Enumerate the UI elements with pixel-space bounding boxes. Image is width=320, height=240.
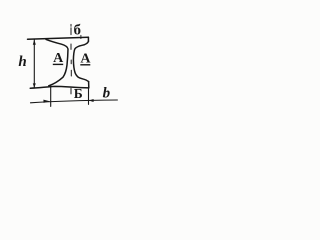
beam bottom edge (with left extension for h): [30, 86, 89, 88]
beam right flange tip edge (top): [87, 37, 89, 41]
arrow h bottom (pointing down): [33, 83, 36, 87]
beam top flange underside right + web right edge + bottom fillet right: [73, 41, 88, 81]
extension tick from б label to top edge: [80, 35, 82, 38]
underline of right А: [80, 64, 90, 65]
beam top edge (with left extension for h): [28, 37, 89, 39]
svg-text:б: б: [73, 23, 81, 39]
underline of left А: [53, 64, 63, 65]
dimension line h (vertical, left): [33, 40, 35, 88]
extension line left (Б, from bottom flange tip): [50, 86, 52, 106]
arrow Б left (outside, pointing right at x=50.7): [43, 100, 49, 103]
svg-text:h: h: [18, 54, 26, 70]
svg-text:А: А: [53, 51, 64, 66]
svg-text:b: b: [103, 86, 111, 102]
svg-text:А: А: [80, 51, 91, 66]
svg-text:Б: Б: [74, 86, 83, 101]
centerline (dash-dot vertical axis): [70, 24, 72, 94]
beam right flange tip edge (bottom): [88, 82, 90, 88]
arrow Б/b right (outside, pointing left at x=88.5): [89, 99, 94, 102]
dimension Б/b line (horizontal, bottom): [31, 100, 118, 103]
arrow h top (pointing up): [33, 40, 36, 45]
beam top flange underside left + web left edge + bottom fillet left: [46, 39, 68, 85]
extension line right (Б/b, from beam right edge): [88, 88, 90, 104]
